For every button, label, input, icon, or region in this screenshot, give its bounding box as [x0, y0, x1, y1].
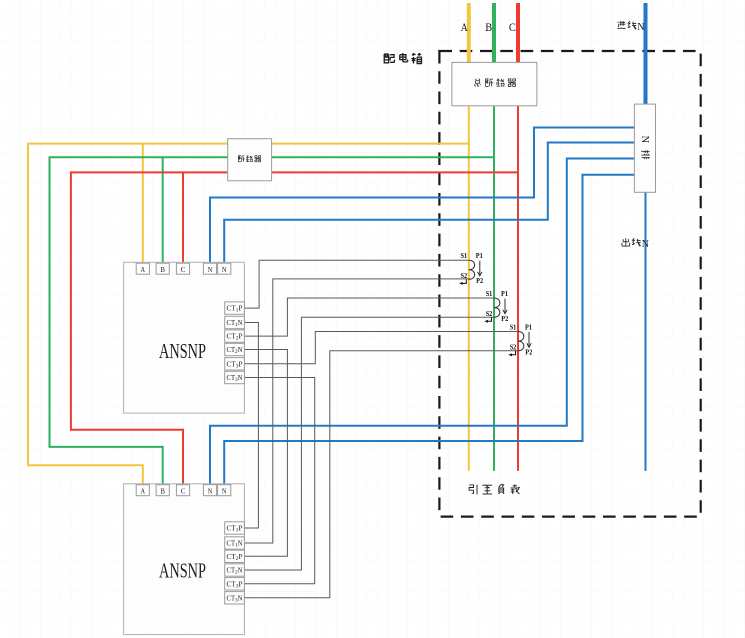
meter M1 terminal CT3N [225, 371, 245, 383]
label 出线N (outgoing neutral) [622, 238, 649, 250]
meter M2 terminal CT3N [225, 592, 245, 604]
label 引至负载 (to load) [469, 484, 520, 494]
svg-text:P2: P2 [525, 349, 532, 357]
svg-text:ANSNP: ANSNP [159, 559, 206, 583]
svg-text:B: B [160, 486, 165, 495]
branch breaker 断路器 [228, 139, 272, 181]
phase C branch wire to meter 1 [182, 172, 184, 268]
meter M2 terminal CT1N [225, 537, 245, 549]
meter M1 terminal CT2P [225, 330, 245, 342]
phase A feeder (incoming) [467, 3, 471, 62]
svg-text:N: N [208, 265, 213, 274]
svg-text:CT2N: CT2N [227, 346, 243, 355]
meter M1 terminal CT1N [225, 316, 245, 328]
phase B feeder (incoming) [492, 3, 496, 62]
meter M1 terminal CT1P [225, 302, 245, 314]
phase C bus to load [517, 106, 519, 471]
meter M2 terminal CT3P [225, 578, 245, 590]
neutral wire meter2 N2 to N-bar [224, 175, 634, 489]
neutral wire meter1 N1 to N-bar [210, 128, 634, 269]
svg-text:A: A [141, 486, 146, 495]
svg-text:N: N [222, 265, 227, 274]
wire CT-B S1 to meter1 CT2P [244, 298, 494, 336]
neutral outgoing wire (出线N) [645, 192, 647, 471]
svg-text:CT1N: CT1N [227, 319, 243, 328]
label 配电箱 [384, 53, 421, 64]
svg-text:A: A [461, 22, 469, 34]
svg-text:A: A [141, 265, 146, 274]
neutral wire meter2 N1 to N-bar [210, 159, 634, 490]
svg-text:N: N [222, 486, 227, 495]
phase B bus to load [493, 106, 495, 471]
wire meter2 CT2N to CT-B S2 [244, 317, 495, 570]
svg-text:N: N [208, 486, 213, 495]
svg-text:CT1P: CT1P [227, 525, 243, 534]
svg-text:P1: P1 [476, 252, 483, 260]
svg-text:N: N [637, 22, 644, 33]
phase B tap wire to meters [50, 157, 495, 489]
wire meter2 CT3N to CT-C S2 [244, 351, 519, 598]
phase B branch wire to meter 1 [162, 157, 164, 268]
wire meter1 CT1N to meter2 CT1P [244, 323, 258, 529]
svg-text:C: C [509, 22, 516, 34]
meter M1 terminal N [218, 263, 231, 274]
meter M2 terminal CT2P [225, 550, 245, 562]
svg-text:C: C [181, 265, 186, 274]
svg-text:CT3N: CT3N [227, 374, 243, 383]
wire CT-C S1 to meter1 CT3P [244, 332, 518, 364]
meter M2 terminal N [203, 485, 216, 496]
svg-text:N: N [642, 239, 649, 250]
svg-text:S2: S2 [461, 272, 468, 280]
distribution box dashed boundary [439, 51, 700, 517]
svg-text:CT3N: CT3N [227, 594, 243, 603]
meter M2 terminal C [176, 485, 189, 496]
svg-text:P2: P2 [501, 315, 508, 323]
phase C feeder (incoming) [516, 3, 520, 62]
meter M1 (ANSNP energy meter) [124, 262, 245, 413]
label 进线N (incoming neutral) [617, 21, 644, 33]
wire meter2 CT1N to CT-A S2 [244, 279, 470, 543]
neutral feeder (incoming 进线N) [644, 3, 648, 104]
svg-text:B: B [485, 22, 492, 34]
current transformer CT-B [484, 290, 509, 323]
meter M1 terminal N [203, 263, 216, 274]
main breaker 总断路器 [452, 62, 537, 105]
svg-text:CT3P: CT3P [227, 360, 243, 369]
meter M1 terminal A [136, 263, 149, 274]
neutral bar N排 [634, 104, 655, 192]
svg-text:ANSNP: ANSNP [159, 339, 206, 363]
meter M2 terminal N [218, 485, 231, 496]
meter M1 terminal CT3P [225, 358, 245, 370]
svg-text:CT3P: CT3P [227, 580, 243, 589]
meter M1 terminal B [156, 263, 169, 274]
wire CT-A S1 to meter1 CT1P [244, 260, 468, 308]
svg-text:CT1N: CT1N [227, 540, 243, 549]
svg-text:C: C [181, 486, 186, 495]
svg-text:P2: P2 [476, 277, 483, 285]
svg-text:S1: S1 [486, 290, 493, 298]
phase C tap wire to meters [71, 172, 518, 489]
current transformer CT-A [459, 252, 484, 285]
svg-text:S2: S2 [510, 343, 517, 351]
phase A bus to load [468, 106, 470, 471]
current transformer CT-C [508, 324, 533, 357]
svg-text:S2: S2 [486, 310, 493, 318]
phase A tap wire to meters [28, 144, 469, 489]
meter M1 terminal C [176, 263, 189, 274]
wire meter1 CT2N to meter2 CT2P [244, 350, 287, 557]
phase A branch wire to meter 1 [142, 144, 144, 268]
svg-text:N: N [639, 136, 650, 144]
svg-text:CT2P: CT2P [227, 333, 243, 342]
meter M1 terminal CT2N [225, 343, 245, 355]
svg-text:P1: P1 [525, 324, 532, 332]
meter M2 terminal B [156, 485, 169, 496]
svg-text:CT2P: CT2P [227, 553, 243, 562]
meter M2 terminal CT1P [225, 522, 245, 534]
svg-text:S1: S1 [510, 324, 517, 332]
svg-text:CT1P: CT1P [227, 305, 243, 314]
neutral wire meter1 N2 to N-bar [224, 143, 634, 269]
wire meter1 CT3N to meter2 CT3P [244, 378, 314, 584]
meter M2 terminal A [136, 485, 149, 496]
meter M2 terminal CT2N [225, 564, 245, 576]
svg-text:CT2N: CT2N [227, 567, 243, 576]
svg-text:B: B [160, 265, 165, 274]
svg-text:P1: P1 [501, 290, 508, 298]
meter M2 (ANSNP energy meter) [124, 484, 245, 635]
svg-text:S1: S1 [461, 252, 468, 260]
